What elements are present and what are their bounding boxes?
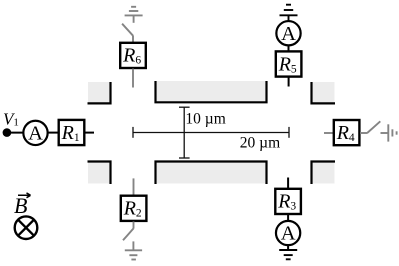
dimension line 10 um (vertical with end caps) [179,107,190,158]
wire ammeter U3 to ground [287,245,289,250]
mesa pad top-middle (gray block) [156,81,267,102]
svg-text:A: A [281,23,296,45]
resistor R5 [276,51,302,76]
mesa pad top-right (gray tab) [312,82,336,104]
resistor R4 [334,120,360,145]
svg-text:10 µm: 10 µm [185,111,225,128]
wire ammeter U5 to R5 [288,45,290,51]
wire R6 to mesa top-left arm [132,69,134,88]
resistor R6 [120,43,146,68]
mesa pad bottom-right (gray tab) [312,162,336,185]
svg-text:B: B [14,193,27,218]
wire R1 to mesa left contact [85,132,94,134]
wire mesa bottom-right arm to R3 [287,178,289,190]
ground (gray, above switch S6) [125,7,143,23]
ground (gray, right, rotated) [381,124,397,141]
ground (black, top right) [280,5,298,21]
ground (black, bottom right) [279,250,297,259]
switch S2 (open, gray) [123,228,134,240]
dimension line 20 um (horizontal with end caps) [133,127,289,138]
mesa pad bottom-left (gray tab) [88,162,111,185]
wire ammeter A1 to R1 [48,132,59,134]
wire mesa right contact to R4 [324,132,334,134]
symbol B into page (circle with cross) [15,216,38,239]
wire mesa bottom-left arm to R2 [133,178,135,195]
label B (magnetic field vector) [14,193,31,218]
ammeter A (top right, U5) [276,21,300,45]
mesa pad bottom-middle (gray block) [156,162,267,185]
ground (gray, below switch S2) [125,241,142,259]
wire R4 to switch S4 [360,132,367,134]
node V1 terminal dot [3,128,12,137]
svg-text:V1: V1 [3,109,19,128]
wire R5 to mesa top-right arm [288,77,290,87]
wire R3 to ammeter U3 [287,215,289,222]
svg-text:A: A [281,223,296,245]
switch S4 (open, gray) [367,121,380,133]
wire switch S6 to R6 [132,36,134,43]
wire V1 to ammeter A1 [7,132,24,134]
wire R2 to switch S2 [133,222,135,229]
resistor R3 [275,189,301,214]
resistor R1 [59,120,85,145]
svg-text:20 µm: 20 µm [240,134,280,151]
ammeter A (left, U1) [23,121,47,145]
svg-text:A: A [28,123,43,145]
ammeter A (bottom right, U3) [276,221,300,245]
resistor R2 [121,196,147,221]
switch S6 (open, gray) [122,24,133,36]
mesa pad top-left (gray tab) [88,82,111,104]
